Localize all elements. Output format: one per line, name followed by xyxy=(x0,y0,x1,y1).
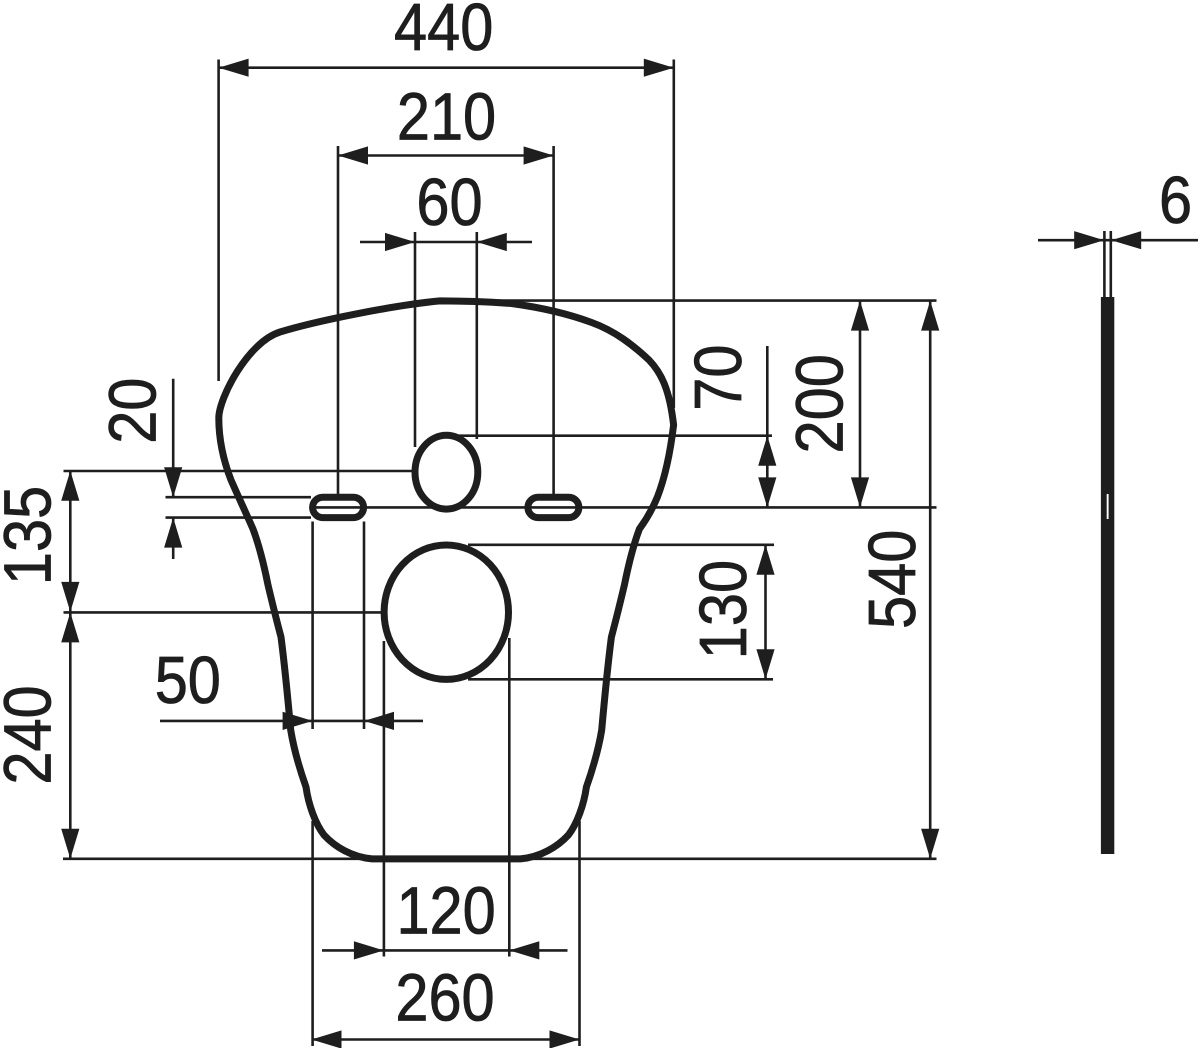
440 right extension line xyxy=(672,60,675,409)
svg-text:130: 130 xyxy=(687,560,761,659)
svg-text:120: 120 xyxy=(396,874,495,948)
dimension 6 (thickness) xyxy=(1038,239,1198,242)
dimension 200 xyxy=(859,301,862,508)
dimension 240 xyxy=(69,612,72,858)
svg-text:240: 240 xyxy=(0,685,65,784)
440 left extension line xyxy=(217,60,220,382)
210 left extension line xyxy=(337,146,340,495)
small hole top tangent line xyxy=(449,434,772,437)
side view: plate body (6 mm thick) xyxy=(1101,297,1114,854)
60 left extension line xyxy=(414,232,417,447)
svg-text:260: 260 xyxy=(395,961,494,1035)
svg-text:440: 440 xyxy=(394,0,493,65)
dimension 20 (slot height) xyxy=(172,379,175,498)
60 right extension line xyxy=(475,232,478,439)
dimension 440 xyxy=(219,66,674,69)
svg-text:70: 70 xyxy=(682,345,756,411)
svg-text:135: 135 xyxy=(0,486,65,585)
side view: plate edge thin lines (top) xyxy=(1103,231,1106,298)
210 right extension line xyxy=(552,146,555,495)
slot top edge line xyxy=(166,496,312,499)
slot bottom edge line xyxy=(166,516,312,519)
svg-text:60: 60 xyxy=(416,166,482,240)
large hole top tangent line xyxy=(468,543,774,546)
large drain hole (oval 120 x 130) xyxy=(384,545,508,679)
svg-text:20: 20 xyxy=(96,378,170,444)
dimension 210 xyxy=(338,154,554,157)
left fixing slot (50 x 20) xyxy=(313,497,364,517)
small water-inlet hole (oval 60 x 70) xyxy=(415,435,478,509)
dimension 135 xyxy=(69,471,72,612)
dimension 50 (slot width) xyxy=(160,720,423,723)
260 right extension line xyxy=(578,821,581,1046)
side view: slot hole gap xyxy=(1107,494,1109,519)
large hole left tangent extension xyxy=(383,641,386,957)
svg-text:6: 6 xyxy=(1159,164,1192,238)
dimension 60 xyxy=(360,241,532,244)
dimension 120 (large hole width) xyxy=(322,949,568,952)
small hole centre line (left) xyxy=(64,470,414,473)
top tangent reference line xyxy=(455,299,937,302)
large hole centre line (left) xyxy=(64,611,383,614)
svg-text:540: 540 xyxy=(856,530,930,629)
large hole bottom tangent line xyxy=(468,678,773,681)
dimension 260 xyxy=(312,1038,580,1041)
bottom tangent reference line xyxy=(63,857,937,860)
large hole right tangent extension xyxy=(508,638,511,957)
slot left edge extension (upper) xyxy=(311,522,314,730)
dimension 70 (small hole height) xyxy=(766,346,769,437)
260 left extension line xyxy=(311,821,314,1046)
svg-text:200: 200 xyxy=(783,354,857,453)
svg-text:50: 50 xyxy=(155,644,221,718)
dimension 130 (large hole height) xyxy=(764,545,767,680)
dimension 540 xyxy=(929,301,932,859)
slot right edge extension xyxy=(363,522,366,730)
right fixing slot (50 x 20) xyxy=(528,497,579,517)
svg-text:210: 210 xyxy=(397,81,496,155)
slot centre line xyxy=(315,506,937,509)
plate outline (front view of WC sound-insulation gasket) xyxy=(219,301,674,859)
